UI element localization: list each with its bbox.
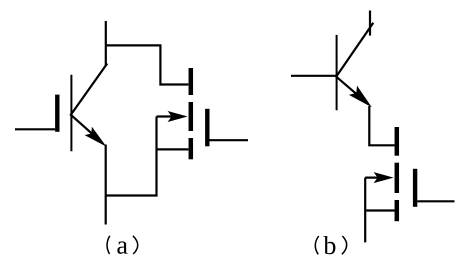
- IGBT Q1 collector diagonal: [70, 64, 107, 116]
- BJT Q2 collector terminal: [369, 11, 371, 36]
- NMOS M1 body arrowhead: [168, 111, 188, 122]
- NMOS M2 body arrow line: [365, 177, 389, 179]
- NMOS M1 gate bar: [205, 109, 209, 147]
- wire: bottom branch to M1 source: [106, 117, 157, 196]
- IGBT Q1 emitter arrowhead: [85, 127, 107, 147]
- wire: collector to M1 drain: [106, 45, 189, 84]
- NMOS M2 source bar: [395, 200, 400, 221]
- NMOS M1 body arrow line: [157, 115, 184, 117]
- NMOS M1 source bar: [189, 138, 194, 159]
- NMOS M2 gate lead: [417, 200, 454, 202]
- wire: body-source bottom terminal: [364, 178, 366, 243]
- NMOS M1 gate lead: [210, 139, 249, 141]
- NMOS M2 source lead: [365, 209, 394, 211]
- wire: top collector terminal: [105, 21, 107, 66]
- NMOS M2 gate bar: [413, 169, 417, 207]
- label (b): [315, 236, 346, 254]
- wire: emitter vertical / bottom terminal: [105, 145, 107, 225]
- NMOS M1 middle body bar: [189, 102, 194, 131]
- BJT Q2 base bar: [336, 35, 338, 110]
- NMOS M2 drain bar: [395, 127, 400, 156]
- label (a): [107, 236, 138, 254]
- IGBT Q1 emitter diagonal: [70, 114, 100, 140]
- wire: emitter to M2 drain: [369, 106, 394, 145]
- IGBT Q1 base bar: [70, 75, 72, 152]
- BJT Q2 collector diagonal: [336, 23, 374, 78]
- NMOS M2 body arrowhead: [374, 172, 394, 183]
- NMOS M2 middle body bar: [395, 163, 400, 193]
- BJT Q2 base lead: [291, 75, 337, 77]
- NMOS M1 source lead: [157, 148, 189, 150]
- BJT Q2 emitter arrowhead: [349, 86, 372, 108]
- NMOS M1 drain bar: [189, 68, 194, 95]
- BJT Q2 emitter diagonal: [336, 76, 365, 101]
- wire: gate lead of IGBT Q1: [15, 128, 55, 130]
- IGBT Q1 gate bar: [55, 95, 59, 132]
